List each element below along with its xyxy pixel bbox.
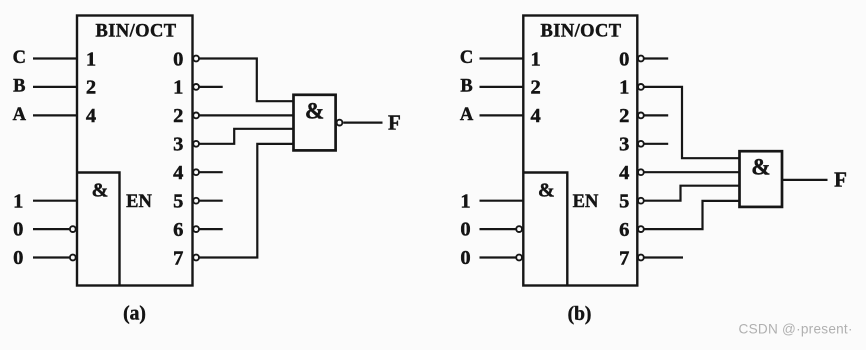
- inversion bubble on enable input (2): [516, 226, 522, 232]
- wire: U1 output 1 stub: [200, 86, 223, 88]
- inversion bubble output 3 U2: [638, 141, 644, 147]
- svg-text:2: 2: [530, 77, 540, 99]
- svg-text:0: 0: [460, 247, 470, 269]
- inversion bubble output 3 U1: [193, 141, 199, 147]
- svg-text:3: 3: [173, 134, 183, 156]
- wire: input B to U1: [33, 86, 77, 88]
- inversion bubble output 2 U1: [193, 113, 199, 119]
- svg-text:2: 2: [86, 77, 96, 99]
- svg-text:0: 0: [13, 247, 23, 269]
- wire: U2 output 1 to gate G2 input 1: [644, 87, 739, 158]
- svg-text:&: &: [305, 98, 324, 123]
- svg-text:A: A: [13, 105, 27, 125]
- svg-text:7: 7: [173, 247, 183, 269]
- svg-text:1: 1: [460, 190, 470, 212]
- wire: U2 output 3 stub: [644, 143, 668, 145]
- wire: U2 output 7 stub: [644, 256, 683, 258]
- wire: U1 output 0 to gate G1 input 1: [200, 59, 294, 102]
- svg-text:5: 5: [173, 191, 183, 213]
- svg-text:&: &: [92, 180, 109, 202]
- svg-text:4: 4: [173, 162, 183, 184]
- wire: U1 output 2 to gate G1 input 2: [200, 114, 294, 116]
- inversion bubble output of G1: [337, 120, 343, 126]
- svg-text:B: B: [460, 77, 472, 97]
- svg-text:0: 0: [173, 48, 183, 70]
- svg-text:C: C: [13, 48, 26, 68]
- inversion bubble output 5 U2: [638, 198, 644, 204]
- inversion bubble output 0 U1: [193, 56, 199, 62]
- inversion bubble output 6 U1: [193, 226, 199, 232]
- decoder U1: BIN/OCT box: [77, 16, 193, 286]
- inversion bubble output 2 U2: [638, 113, 644, 119]
- svg-text:1: 1: [530, 48, 540, 70]
- svg-text:1: 1: [173, 77, 183, 99]
- wire: input B to U2: [480, 86, 524, 88]
- wire: enable input 0 to U2: [480, 256, 516, 258]
- svg-text:F: F: [834, 168, 847, 192]
- svg-text:BIN/OCT: BIN/OCT: [96, 21, 177, 41]
- AND gate G2 (b): [740, 151, 783, 207]
- svg-text:0: 0: [13, 219, 23, 241]
- inversion bubble output 7 U2: [638, 255, 644, 261]
- wire: U2 output 2 stub: [644, 114, 668, 116]
- enable AND block inside U1: [77, 173, 120, 286]
- svg-text:7: 7: [619, 247, 629, 269]
- svg-text:A: A: [460, 105, 474, 125]
- svg-text:1: 1: [86, 48, 96, 70]
- svg-text:&: &: [538, 180, 555, 202]
- wire: U2 output 6 to gate G2 input 4: [644, 201, 739, 229]
- svg-text:C: C: [460, 48, 473, 68]
- inversion bubble output 1 U1: [193, 84, 199, 90]
- svg-text:1: 1: [619, 77, 629, 99]
- wire: U1 output 5 stub: [200, 200, 223, 202]
- inversion bubble output 7 U1: [193, 255, 199, 261]
- wire: input C to U1: [33, 57, 77, 59]
- svg-text:EN: EN: [126, 192, 152, 212]
- svg-text:B: B: [13, 77, 25, 97]
- svg-text:6: 6: [619, 219, 629, 241]
- svg-text:5: 5: [619, 191, 629, 213]
- svg-text:6: 6: [173, 219, 183, 241]
- svg-text:BIN/OCT: BIN/OCT: [541, 21, 622, 41]
- wire: input A to U2: [480, 114, 524, 116]
- wire: U2 output 5 to gate G2 input 3: [644, 186, 739, 201]
- svg-text:1: 1: [13, 190, 23, 212]
- inversion bubble on enable input (1): [70, 226, 76, 232]
- inversion bubble on enable input (2): [516, 255, 522, 261]
- AND gate G1 (a): [294, 95, 336, 151]
- wire: U1 output 6 stub: [200, 228, 223, 230]
- svg-text:(b): (b): [568, 304, 592, 325]
- wire: U1 output 4 stub: [200, 171, 223, 173]
- inversion bubble on enable input (1): [70, 255, 76, 261]
- wire: U2 output 0 stub: [644, 57, 668, 59]
- inversion bubble output 0 U2: [638, 56, 644, 62]
- wire: U2 output 4 to gate G2 input 2: [644, 171, 739, 173]
- wire: enable input 1 to U1: [33, 200, 77, 202]
- svg-text:2: 2: [619, 105, 629, 127]
- svg-text:&: &: [751, 154, 770, 179]
- inversion bubble output 6 U2: [638, 226, 644, 232]
- wire: enable input 1 to U2: [480, 200, 524, 202]
- svg-text:4: 4: [619, 162, 629, 184]
- inversion bubble output 4 U2: [638, 169, 644, 175]
- svg-text:4: 4: [86, 105, 96, 127]
- wire: G1 output to F: [343, 121, 382, 123]
- wire: U1 output 7 to gate G1 input 4: [200, 144, 294, 258]
- svg-text:(a): (a): [123, 303, 146, 324]
- wire: enable input 0 to U1: [33, 228, 69, 230]
- svg-text:3: 3: [619, 134, 629, 156]
- enable AND block inside U2: [523, 173, 567, 286]
- svg-text:0: 0: [619, 48, 629, 70]
- decoder U2: BIN/OCT box: [523, 16, 637, 286]
- inversion bubble output 4 U1: [193, 169, 199, 175]
- wire: input C to U2: [480, 57, 524, 59]
- svg-text:0: 0: [460, 219, 470, 241]
- svg-text:EN: EN: [573, 192, 599, 212]
- inversion bubble output 5 U1: [193, 198, 199, 204]
- wire: U1 output 3 to gate G1 input 3: [200, 129, 294, 144]
- svg-text:CSDN @·present·: CSDN @·present·: [739, 321, 853, 336]
- wire: G2 output to F: [782, 179, 828, 181]
- svg-text:F: F: [388, 110, 401, 134]
- svg-text:2: 2: [173, 105, 183, 127]
- svg-text:4: 4: [530, 105, 540, 127]
- wire: input A to U1: [33, 114, 77, 116]
- inversion bubble output 1 U2: [638, 84, 644, 90]
- wire: enable input 0 to U1: [33, 256, 69, 258]
- wire: enable input 0 to U2: [480, 228, 516, 230]
